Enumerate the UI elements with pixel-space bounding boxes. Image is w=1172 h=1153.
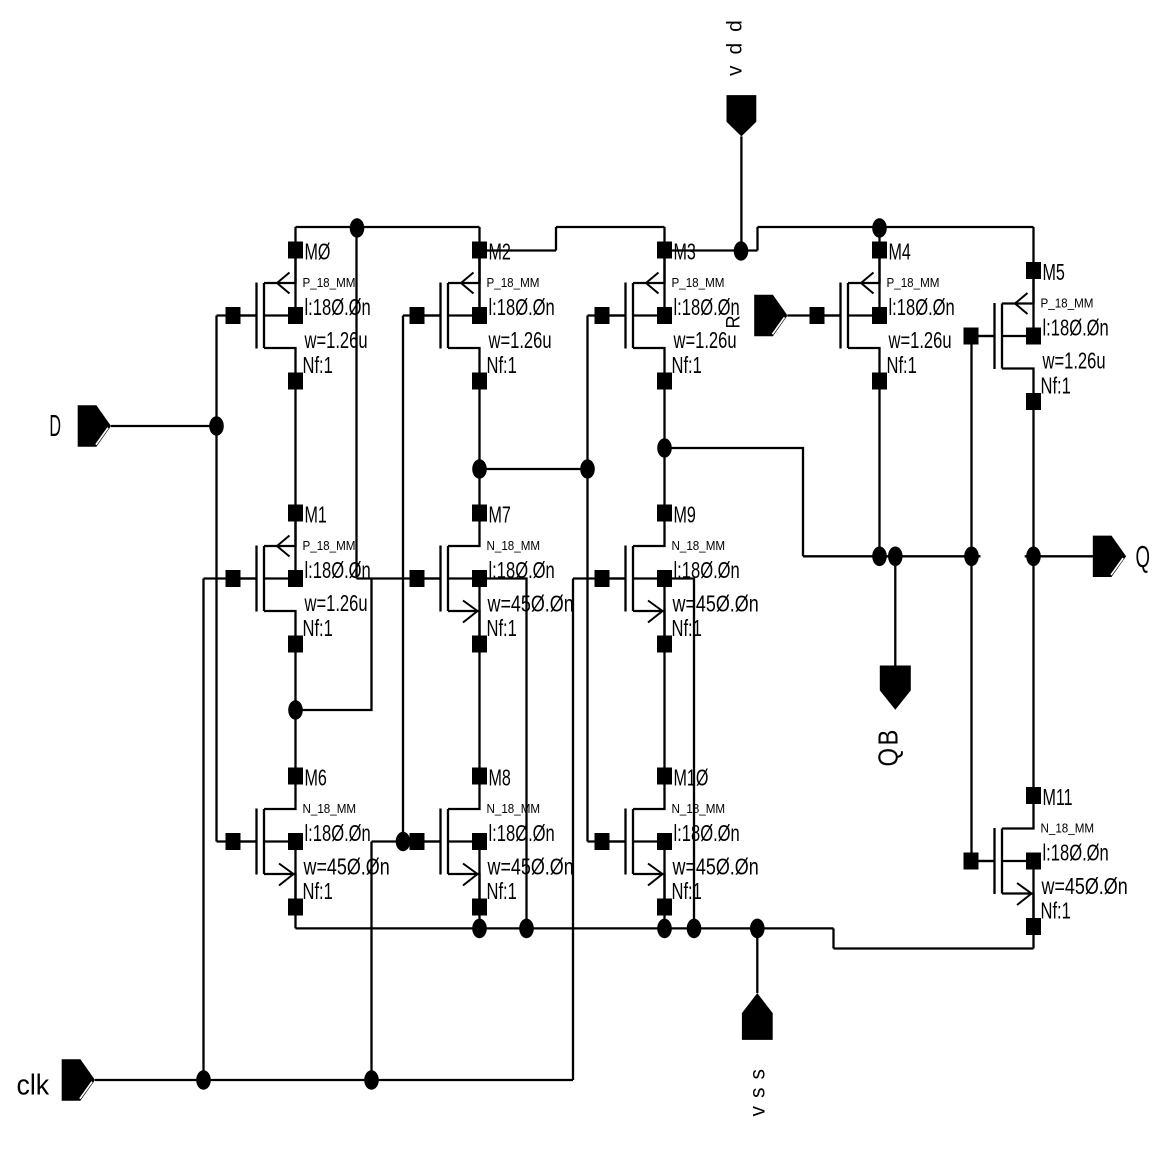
wire vss rail step bbox=[832, 928, 834, 948]
wire M5 gate vertical bbox=[970, 336, 972, 861]
wire M8 gate wire bbox=[372, 840, 441, 842]
svg-text:Nf:1: Nf:1 bbox=[303, 353, 333, 378]
junction D junction bbox=[209, 416, 224, 436]
port Q output bbox=[1093, 536, 1126, 577]
wire M1/M6 node to M7 gate bbox=[296, 579, 372, 711]
wire M3 right to vdd bbox=[665, 249, 758, 251]
wire clk horizontal bbox=[95, 1079, 573, 1081]
wire M3 drain node to QB line bbox=[665, 448, 804, 556]
wire M6 gate wire bbox=[217, 840, 257, 842]
svg-text:clk: clk bbox=[17, 1068, 50, 1100]
svg-text:w=1.26u: w=1.26u bbox=[304, 591, 368, 616]
port vss supply bbox=[742, 993, 773, 1040]
svg-text:M1: M1 bbox=[305, 503, 327, 528]
junction vdd connection bbox=[734, 241, 749, 261]
svg-text:N_18_MM: N_18_MM bbox=[672, 802, 726, 816]
wire M8 drain to vss rail bbox=[478, 907, 480, 928]
svg-text:M5: M5 bbox=[1043, 260, 1065, 285]
junction M3 gate node bbox=[580, 459, 595, 479]
wire M7 drain to M8 source bbox=[478, 644, 480, 776]
wire M6 drain to vss rail bbox=[294, 907, 296, 928]
svg-text:Nf:1: Nf:1 bbox=[487, 353, 517, 378]
svg-text:M6: M6 bbox=[305, 766, 327, 791]
wire M9 gate wire bbox=[573, 577, 626, 579]
svg-text:MØ: MØ bbox=[305, 240, 331, 265]
wire M10 drain to vss rail bbox=[663, 907, 665, 928]
wire M4 top drop bbox=[878, 228, 880, 250]
svg-text:P_18_MM: P_18_MM bbox=[303, 539, 356, 553]
svg-text:Nf:1: Nf:1 bbox=[672, 879, 702, 904]
svg-text:M3: M3 bbox=[674, 240, 696, 265]
junction vss rail M10 bbox=[657, 919, 672, 939]
junction vss rail stem bbox=[750, 919, 765, 939]
junction clk junction 2 bbox=[364, 1070, 379, 1090]
svg-text:M8: M8 bbox=[489, 766, 511, 791]
svg-text:w=45Ø.Øn: w=45Ø.Øn bbox=[672, 854, 759, 880]
svg-text:l:18Ø.Øn: l:18Ø.Øn bbox=[305, 558, 371, 583]
transistor M6 (NMOS) bbox=[226, 768, 304, 916]
wire top rail segment M0-M2 bbox=[296, 226, 480, 228]
svg-text:M7: M7 bbox=[489, 503, 511, 528]
svg-text:Nf:1: Nf:1 bbox=[672, 353, 702, 378]
svg-text:l:18Ø.Øn: l:18Ø.Øn bbox=[674, 558, 740, 583]
svg-text:Nf:1: Nf:1 bbox=[487, 616, 517, 641]
wire top rail segment vdd-M4-M5 bbox=[758, 226, 1034, 228]
svg-text:w=1.26u: w=1.26u bbox=[888, 328, 952, 353]
svg-text:P_18_MM: P_18_MM bbox=[887, 276, 940, 290]
svg-text:N_18_MM: N_18_MM bbox=[1041, 821, 1095, 835]
transistor M11 (NMOS) bbox=[964, 787, 1042, 935]
transistor M4 (PMOS) bbox=[810, 242, 888, 390]
wire M7 gate wire bbox=[357, 577, 441, 579]
wire M3 gate wire bbox=[588, 314, 626, 316]
transistor M8 (NMOS) bbox=[410, 768, 488, 916]
svg-text:l:18Ø.Øn: l:18Ø.Øn bbox=[1043, 316, 1109, 341]
wire M5 drain to M11 source bbox=[1032, 402, 1034, 796]
wire R to M4 gate bbox=[788, 314, 841, 316]
junction node M2/M7 bbox=[472, 459, 487, 479]
svg-text:Nf:1: Nf:1 bbox=[303, 616, 333, 641]
transistor M10 (NMOS) bbox=[595, 768, 673, 916]
svg-text:P_18_MM: P_18_MM bbox=[1041, 296, 1094, 310]
svg-text:P_18_MM: P_18_MM bbox=[303, 276, 356, 290]
svg-text:w=45Ø.Øn: w=45Ø.Øn bbox=[1041, 874, 1128, 900]
wire M0 drain to M1 source bbox=[294, 381, 296, 513]
wire M4 drain drop bbox=[878, 381, 880, 556]
port QB output bbox=[880, 666, 911, 710]
wire vdd stem bbox=[740, 136, 742, 250]
wire Q horizontal bbox=[1025, 555, 1095, 557]
wire clk to M8-gate-node vertical bbox=[370, 842, 372, 1081]
svg-text:l:18Ø.Øn: l:18Ø.Øn bbox=[889, 295, 955, 320]
wire M0 gate wire bbox=[217, 314, 257, 316]
wire D to junction bbox=[111, 425, 217, 427]
wire M2/M7 node to M3 gate node bbox=[480, 468, 588, 470]
svg-text:vdd: vdd bbox=[724, 9, 747, 76]
svg-text:Nf:1: Nf:1 bbox=[1041, 374, 1071, 399]
svg-text:D: D bbox=[49, 410, 61, 444]
transistor M0 (PMOS) bbox=[226, 242, 304, 390]
wire M0 top drop bbox=[294, 227, 296, 250]
svg-text:M1Ø: M1Ø bbox=[674, 766, 709, 791]
wire vdd jog vertical bbox=[756, 227, 758, 251]
wire M2 src-tie drop bbox=[478, 250, 480, 316]
svg-text:QB: QB bbox=[872, 727, 904, 766]
wire M2 top drop bbox=[478, 227, 480, 250]
svg-text:Nf:1: Nf:1 bbox=[672, 616, 702, 641]
transistor M3 (PMOS) bbox=[595, 242, 673, 390]
svg-text:l:18Ø.Øn: l:18Ø.Øn bbox=[305, 295, 371, 320]
svg-text:w=1.26u: w=1.26u bbox=[304, 328, 368, 353]
junction vss rail M7bulk bbox=[519, 919, 534, 939]
wire M2 gate to M8 gate vertical bbox=[402, 316, 404, 842]
wire M9 drain to M10 source bbox=[663, 644, 665, 776]
wire M2 right jog vertical bbox=[555, 227, 557, 251]
wire M1 drain to M6 source bbox=[294, 644, 296, 776]
svg-text:l:18Ø.Øn: l:18Ø.Øn bbox=[305, 821, 371, 846]
svg-text:l:18Ø.Øn: l:18Ø.Øn bbox=[674, 821, 740, 846]
transistor M2 (PMOS) bbox=[410, 242, 488, 390]
junction clk junction 1 bbox=[196, 1070, 211, 1090]
svg-text:Nf:1: Nf:1 bbox=[303, 879, 333, 904]
junction Q node bbox=[1026, 547, 1041, 567]
junction QB node M4 bbox=[872, 547, 887, 567]
svg-text:M2: M2 bbox=[489, 240, 511, 265]
svg-text:w=45Ø.Øn: w=45Ø.Øn bbox=[672, 591, 759, 617]
wire vss rail right bbox=[834, 947, 1034, 949]
wire vss rail to M11 drain bbox=[1032, 927, 1034, 949]
svg-text:R: R bbox=[722, 315, 744, 328]
svg-text:N_18_MM: N_18_MM bbox=[672, 539, 726, 553]
wire vss stem bbox=[756, 928, 758, 993]
wire M1 gate wire bbox=[204, 577, 257, 579]
junction QB node stem bbox=[888, 547, 903, 567]
wire M3 drain to M9 source bbox=[663, 381, 665, 513]
junction vss rail M9bulk bbox=[687, 919, 702, 939]
svg-text:l:18Ø.Øn: l:18Ø.Øn bbox=[489, 821, 555, 846]
svg-text:vss: vss bbox=[747, 1061, 770, 1117]
wire M3 gate vertical bbox=[586, 316, 588, 842]
port R input bbox=[754, 295, 787, 336]
wire M5 top drop bbox=[1032, 227, 1034, 271]
svg-text:M4: M4 bbox=[889, 240, 911, 265]
svg-text:N_18_MM: N_18_MM bbox=[303, 802, 357, 816]
transistor M7 (NMOS) bbox=[410, 505, 488, 653]
svg-text:N_18_MM: N_18_MM bbox=[487, 539, 541, 553]
junction vss rail M8 bbox=[472, 919, 487, 939]
svg-text:w=45Ø.Øn: w=45Ø.Øn bbox=[487, 854, 574, 880]
svg-text:w=1.26u: w=1.26u bbox=[1042, 349, 1106, 374]
transistor M1 (PMOS) bbox=[226, 505, 304, 653]
wire M11 gate wire bbox=[972, 860, 995, 862]
junction node M3/M9 bbox=[657, 438, 672, 458]
wire QB stem bbox=[894, 556, 896, 665]
wire M9 bulk to vss bbox=[665, 579, 695, 929]
wire M2 gate wire bbox=[403, 314, 441, 316]
wire M2 drain to M7 source bbox=[478, 381, 480, 513]
svg-text:l:18Ø.Øn: l:18Ø.Øn bbox=[1043, 841, 1109, 866]
wire vss rail bbox=[296, 927, 834, 929]
svg-text:l:18Ø.Øn: l:18Ø.Øn bbox=[489, 558, 555, 583]
wire M3 top drop bbox=[663, 227, 665, 250]
svg-text:Nf:1: Nf:1 bbox=[1041, 899, 1071, 924]
transistor M9 (NMOS) bbox=[595, 505, 673, 653]
junction node M1/M6 bbox=[288, 700, 303, 720]
wire M10 gate wire bbox=[588, 840, 626, 842]
transistor M5 (PMOS) bbox=[964, 262, 1042, 410]
wire QB node horizontal bbox=[803, 555, 981, 557]
wire nodeA to M7 gate vertical bbox=[355, 228, 357, 579]
wire clk to M9 gate vertical bbox=[572, 579, 574, 1081]
svg-text:Nf:1: Nf:1 bbox=[887, 353, 917, 378]
wire M5 gate wire bbox=[972, 335, 995, 337]
wire top rail segment M2-M3 bbox=[556, 226, 665, 228]
svg-text:w=45Ø.Øn: w=45Ø.Øn bbox=[487, 591, 574, 617]
svg-text:M11: M11 bbox=[1043, 785, 1073, 810]
wire M7 bulk to vss bbox=[480, 579, 527, 929]
junction M8 gate junction bbox=[396, 832, 411, 852]
port D input bbox=[78, 405, 111, 446]
svg-text:P_18_MM: P_18_MM bbox=[672, 276, 725, 290]
svg-text:Q: Q bbox=[1136, 540, 1150, 574]
svg-text:w=1.26u: w=1.26u bbox=[673, 328, 737, 353]
wire M2 right jog horizontal bbox=[480, 249, 557, 251]
wire D vertical M0gate-M6gate bbox=[215, 316, 217, 842]
junction M4 rail connection bbox=[872, 218, 887, 238]
wire clk to M1 gate vertical bbox=[202, 579, 204, 1081]
svg-text:N_18_MM: N_18_MM bbox=[487, 802, 541, 816]
svg-text:w=1.26u: w=1.26u bbox=[488, 328, 552, 353]
svg-text:Nf:1: Nf:1 bbox=[487, 879, 517, 904]
svg-text:l:18Ø.Øn: l:18Ø.Øn bbox=[489, 295, 555, 320]
junction QB node gates bbox=[964, 547, 979, 567]
svg-text:P_18_MM: P_18_MM bbox=[487, 276, 540, 290]
junction top rail node A bbox=[350, 218, 365, 238]
port vdd supply bbox=[727, 95, 757, 136]
svg-text:w=45Ø.Øn: w=45Ø.Øn bbox=[303, 854, 390, 880]
port clk input bbox=[62, 1059, 95, 1100]
svg-text:M9: M9 bbox=[674, 503, 696, 528]
